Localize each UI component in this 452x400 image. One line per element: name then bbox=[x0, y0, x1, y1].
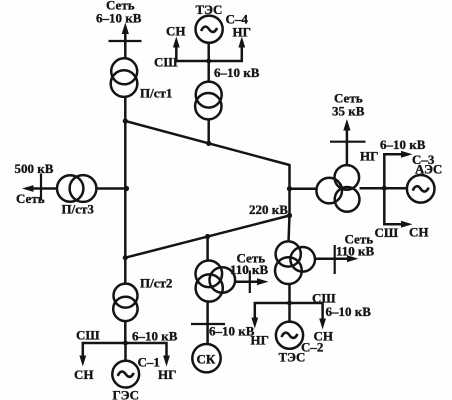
generator TES C-4 bbox=[196, 16, 223, 43]
wire middle vertical transformer T4 to upper diagonal bbox=[207, 119, 210, 143]
junction dot T110L on lower diagonal bbox=[205, 234, 210, 239]
wire middle vertical gen C-4 to bus bbox=[207, 42, 210, 61]
svg-text:СН: СН bbox=[166, 24, 186, 39]
tick on top-left network arrow bbox=[109, 40, 142, 42]
svg-text:ГЭС: ГЭС bbox=[113, 388, 139, 400]
svg-text:П/ст2: П/ст2 bbox=[140, 276, 172, 291]
junction dot lower diagonal bbox=[123, 255, 128, 260]
wire upper diagonal 125,121 to 290,165 bbox=[125, 121, 289, 165]
junction dot C-2 bus bbox=[287, 301, 292, 306]
transformer 110kV right three-winding bbox=[276, 241, 301, 266]
generator GES C-1 bbox=[112, 361, 139, 388]
junction dot upper diagonal bbox=[123, 118, 128, 123]
wire AES branch up to C-3 arrow bbox=[384, 154, 401, 188]
arrowhead 110kV right feeder bbox=[347, 255, 359, 262]
transformer 35kV three-winding bbox=[335, 165, 360, 190]
transformer 110kV left three-winding bbox=[196, 261, 223, 288]
svg-text:110 кВ: 110 кВ bbox=[230, 262, 269, 277]
wire 35kV arrow stem down to transformer top bbox=[346, 126, 349, 166]
svg-text:35 кВ: 35 кВ bbox=[332, 104, 365, 119]
svg-text:АЭС: АЭС bbox=[415, 162, 442, 177]
svg-text:6–10 кВ: 6–10 кВ bbox=[209, 324, 255, 339]
transformer P/st3 two-winding horizontal bbox=[57, 175, 83, 201]
svg-text:110 кВ: 110 кВ bbox=[336, 244, 375, 259]
svg-text:НГ: НГ bbox=[233, 25, 251, 40]
tilde of generator GES bbox=[118, 372, 134, 377]
arrowhead C-4 bus left up (CH) bbox=[173, 37, 180, 48]
bus SSh of station C-2 bbox=[255, 303, 323, 325]
arrowhead C-2 bus left down (NG) bbox=[251, 318, 258, 329]
arrowhead 110kV left feeder bbox=[257, 278, 269, 285]
wire left vertical main lower segment bbox=[124, 321, 127, 344]
tilde of generator AES bbox=[413, 186, 429, 191]
svg-text:СШ: СШ bbox=[154, 55, 178, 70]
svg-text:СН: СН bbox=[74, 367, 94, 382]
tick on 110kV left feeder bbox=[249, 271, 251, 294]
arrowhead SSh-CH right bbox=[401, 221, 413, 228]
svg-text:СШ: СШ bbox=[76, 328, 100, 343]
transformer P/st1 two-winding bbox=[111, 58, 137, 84]
svg-text:С–1: С–1 bbox=[138, 355, 160, 370]
arrowhead C-1 bus left down (CH) bbox=[79, 356, 86, 367]
wire right vertical 220kV bus bbox=[288, 164, 291, 216]
tilde of generator C-2 bbox=[282, 333, 298, 338]
wire P/st3 to left vertical main bbox=[96, 187, 127, 190]
bus SSh of station C-4 bbox=[176, 40, 242, 61]
wire C-2 bus to generator C-2 bbox=[288, 303, 291, 322]
svg-text:6–10 кВ: 6–10 кВ bbox=[96, 11, 142, 26]
junction dot T4 on upper diagonal bbox=[206, 141, 211, 146]
wire 110kV left feeder bbox=[236, 280, 258, 283]
junction dot AES node bbox=[382, 186, 387, 191]
arrowhead C-1 bus right down (NG) bbox=[163, 356, 170, 367]
svg-text:СШ: СШ bbox=[375, 225, 399, 240]
wire left vertical main middle segment bbox=[124, 97, 127, 285]
tick on 35kV network arrow bbox=[330, 141, 366, 143]
wire transformer T110R bottom to C-2 bus bbox=[288, 284, 291, 304]
junction dot 220kV corner bbox=[287, 213, 292, 218]
synchronous compensator CK circle bbox=[192, 344, 220, 372]
transformer P/st2 two-winding bbox=[114, 284, 138, 308]
generator AES C-3 bbox=[407, 175, 435, 203]
generator TES C-2 bbox=[276, 322, 303, 349]
svg-text:ТЭС: ТЭС bbox=[279, 350, 306, 365]
svg-text:500 кВ: 500 кВ bbox=[15, 161, 54, 176]
svg-text:П/ст3: П/ст3 bbox=[62, 202, 95, 217]
svg-text:6–10 кВ: 6–10 кВ bbox=[326, 304, 372, 319]
wire lower diagonal 125,258 to 290,215.5 bbox=[125, 216, 289, 258]
arrowhead C-4 bus right up (NG) bbox=[238, 37, 245, 48]
tick on 500kV line bbox=[40, 174, 42, 201]
wire left vertical main (x=125) upper segment bbox=[124, 30, 127, 59]
svg-text:Сеть: Сеть bbox=[16, 191, 45, 206]
transformer of station C-4 bbox=[196, 82, 222, 108]
svg-text:НГ: НГ bbox=[158, 367, 176, 382]
arrowhead C-2 bus right down (CH) bbox=[319, 319, 326, 330]
junction dot C-4 bus bbox=[206, 59, 211, 64]
wire AES branch down to SSh arrow bbox=[384, 188, 401, 224]
wire lower diagonal to transformer T110L bbox=[206, 237, 209, 262]
wire middle vertical bus to transformer T4 bbox=[207, 61, 210, 82]
junction dot C-1 bus bbox=[123, 341, 128, 346]
arrowhead C-3 right bbox=[401, 151, 413, 158]
svg-text:6–10 кВ: 6–10 кВ bbox=[132, 329, 178, 344]
svg-text:ТЭС: ТЭС bbox=[196, 2, 223, 17]
tick on 110kV right feeder bbox=[334, 245, 336, 274]
arrowhead 35kV network up bbox=[343, 119, 350, 131]
svg-text:П/ст1: П/ст1 bbox=[140, 86, 172, 101]
arrowhead 500kV left bbox=[22, 185, 34, 192]
junction dot 220kV to 35kV transformer bbox=[287, 186, 292, 191]
tick on CK branch 6-10kV bbox=[191, 323, 225, 325]
wire 35kV transformer to AES node bbox=[360, 187, 408, 190]
wire 220kV corner down to transformer T110R bbox=[289, 216, 290, 243]
bus SSh of station C-1 bbox=[83, 343, 167, 362]
tilde of generator C-4 bbox=[201, 27, 217, 32]
wire 500kV line to substation P/st3 bbox=[26, 187, 58, 190]
wire C-1 bus to generator GES bbox=[124, 343, 127, 362]
junction dot P/st3 node bbox=[124, 186, 129, 191]
svg-text:6–10 кВ: 6–10 кВ bbox=[214, 65, 260, 80]
arrowhead top-left network up bbox=[122, 23, 129, 35]
svg-text:СК: СК bbox=[197, 352, 216, 367]
wire 220kV node to 35kV transformer bbox=[290, 187, 318, 190]
wire 110kV right feeder bbox=[315, 257, 347, 260]
wire transformer T110L down to CK tick and circle bbox=[206, 302, 209, 345]
svg-text:НГ: НГ bbox=[360, 149, 378, 164]
svg-text:220 кВ: 220 кВ bbox=[249, 202, 288, 217]
svg-text:6–10 кВ: 6–10 кВ bbox=[380, 137, 426, 152]
svg-text:СН: СН bbox=[409, 225, 429, 240]
